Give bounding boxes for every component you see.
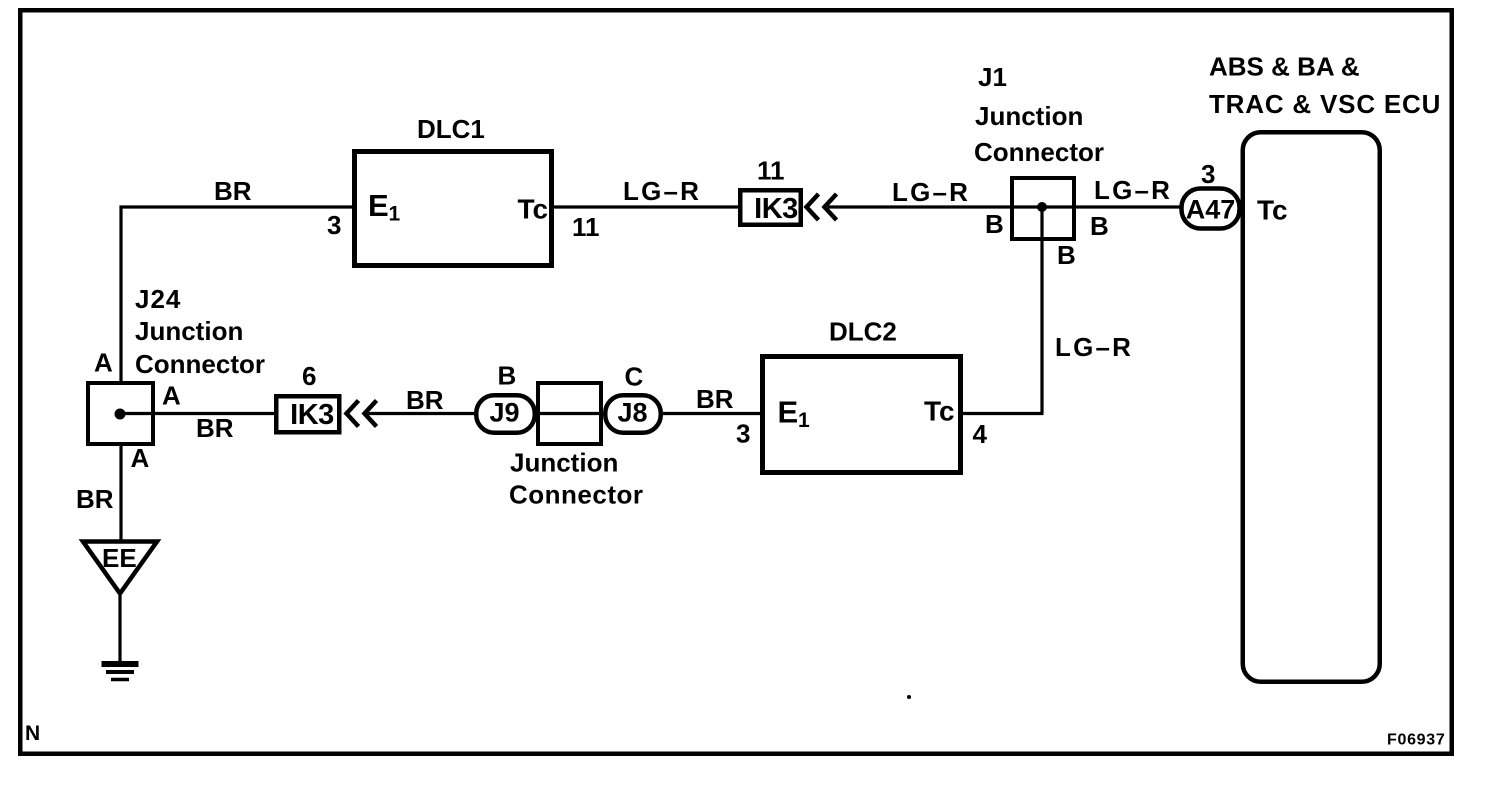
junction connector J1 square [1012,178,1074,239]
svg-text:A47: A47 [1186,195,1236,225]
connector J9 oval [476,395,535,433]
svg-text:LG–R: LG–R [1055,332,1133,362]
wire BR from vertical riser to DLC1 pin 3 [120,205,353,208]
svg-text:EE: EE [102,543,137,573]
wire BR from J8 to DLC2 [663,412,760,415]
svg-text:C: C [625,362,644,392]
svg-text:ABS & BA &: ABS & BA & [1209,52,1360,82]
svg-text:3: 3 [1201,159,1215,189]
svg-text:3: 3 [327,210,341,240]
svg-text:A: A [94,348,113,378]
DLC1 box [355,152,552,266]
svg-text:B: B [985,209,1004,239]
svg-text:BR: BR [196,413,234,443]
svg-text:J9: J9 [489,398,519,428]
svg-text:DLC1: DLC1 [417,114,485,144]
svg-text:Tc: Tc [518,194,549,225]
svg-text:B: B [498,361,517,391]
junction connector J24 square [88,383,153,444]
DLC2 box [763,357,961,473]
svg-text:11: 11 [757,156,785,186]
ground triangle EE [83,542,157,594]
svg-text:E: E [368,188,389,223]
svg-text:A: A [162,381,181,411]
svg-text:TRAC & VSC ECU: TRAC & VSC ECU [1209,89,1441,119]
svg-text:J8: J8 [617,398,647,428]
svg-text:LG–R: LG–R [1094,175,1172,205]
junction connector middle square [538,383,601,444]
node dot J1 [1037,202,1047,212]
svg-text:Connector: Connector [974,137,1104,167]
svg-text:6: 6 [302,361,316,391]
svg-text:LG–R: LG–R [623,176,701,206]
svg-text:3: 3 [736,419,750,449]
svg-text:Junction: Junction [510,448,618,478]
svg-text:Tc: Tc [1257,195,1288,226]
svg-text:11: 11 [572,212,600,242]
ECU box rounded [1243,132,1380,682]
node dot J24 [115,409,126,420]
svg-text:BR: BR [406,385,444,415]
arrow chevrons (IK3 top) [807,194,819,220]
wire BR from IK3 arrows to J9 [366,412,476,415]
svg-text:BR: BR [76,484,114,514]
svg-text:B: B [1057,240,1076,270]
svg-text:1: 1 [389,203,401,226]
arrow chevrons (IK3 bottom) [347,401,359,427]
wire triangle to ground [118,595,121,663]
connector A47 oval [1182,189,1240,229]
svg-text:DLC2: DLC2 [829,317,897,347]
svg-text:IK3: IK3 [754,193,798,225]
svg-text:N: N [25,722,40,745]
svg-text:LG–R: LG–R [892,177,970,207]
wire vertical J24 to EE triangle [119,444,122,541]
wire from DLC2 Tc to vertical [963,412,1044,415]
wire LG-R vertical from J1 down [1040,207,1043,414]
connector J8 oval [605,395,661,433]
svg-text:Connector: Connector [509,480,644,510]
svg-text:J1: J1 [978,62,1007,92]
svg-text:B: B [1090,211,1109,241]
connector IK3 (bottom) [276,396,339,432]
wire LG-R from DLC1 Tc to IK3 connector [554,205,738,208]
svg-text:E: E [778,395,799,430]
wire vertical BR riser [119,206,122,383]
svg-text:IK3: IK3 [290,399,334,431]
wire from J24 dot to IK3 bottom [120,412,274,415]
svg-text:Tc: Tc [924,396,955,427]
connector IK3 (top) [740,190,801,225]
svg-text:Junction: Junction [975,101,1083,131]
svg-text:4: 4 [973,419,988,449]
svg-text:BR: BR [214,176,252,206]
svg-text:1: 1 [798,409,810,432]
svg-text:A: A [131,443,150,473]
svg-text:Junction: Junction [135,316,243,346]
svg-text:F06937: F06937 [1387,732,1445,749]
speck [907,695,911,699]
svg-text:J24: J24 [135,284,181,314]
svg-text:BR: BR [696,384,734,414]
svg-text:Connector: Connector [135,349,265,379]
wire through middle square [536,412,603,415]
ground symbol [102,661,139,667]
wire LG-R from IK3 arrows through J1 to A47 [828,205,1180,208]
